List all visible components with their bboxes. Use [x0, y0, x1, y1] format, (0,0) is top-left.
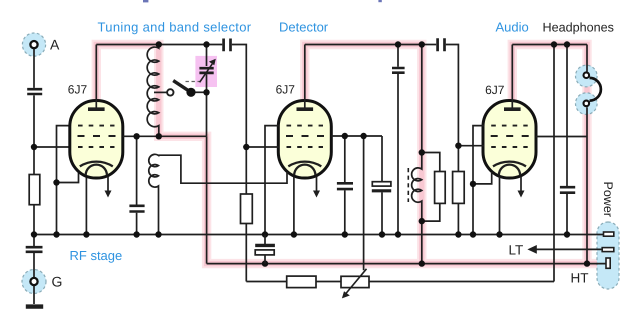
bus junction V2 bottom — [291, 231, 297, 237]
tube V3 grid 1 — [491, 125, 528, 127]
junction V1 anode-C3 — [133, 133, 139, 139]
variable capacitor highlight box — [195, 56, 217, 87]
wire grid node to tube V1 — [34, 146, 71, 148]
wire R1 to ground bus — [33, 205, 35, 235]
tube V1 grid-cap bar — [88, 107, 105, 111]
tube V1 internals — [78, 45, 116, 193]
wire G to earth — [33, 285, 35, 304]
coupling capacitor C6 plates — [438, 38, 445, 51]
headphone jack top — [584, 72, 590, 78]
band switch pivot — [186, 88, 195, 97]
bus junction C8 — [379, 231, 385, 237]
junction rail-L1 top — [156, 41, 162, 47]
terminal G pad — [22, 270, 46, 294]
wire coil tap to switch — [154, 91, 167, 93]
highlighted signal-path halo (pink) — [96, 45, 606, 264]
wire choke top to R4 — [422, 153, 440, 172]
wiper feed wire from V2 anode — [363, 136, 365, 270]
junction C4-HT line — [262, 260, 268, 266]
wire anode node to red corner — [159, 135, 207, 137]
top rail red right section — [512, 44, 587, 46]
bus junction antenna leg — [31, 231, 37, 237]
wire V2 grid3 — [246, 146, 278, 148]
wire C7 to bus — [344, 190, 346, 234]
tube V1 grid 3 — [78, 146, 115, 148]
wire V2 anode right — [331, 135, 382, 137]
bus junction L2 — [155, 231, 161, 237]
capacitor C7 plates — [337, 183, 353, 189]
junction choke-HT line — [419, 260, 425, 266]
tube V1 grid-cap lead — [95, 45, 97, 109]
top rail to coupling cap C6 — [422, 44, 436, 46]
band switch contact — [167, 89, 173, 95]
red drop wire — [206, 136, 208, 263]
wire C1a to grid node — [33, 95, 35, 148]
tube V3 envelope — [483, 101, 536, 179]
tube V3 grid-cap bar — [504, 107, 521, 111]
wire V3 cathode node — [473, 172, 492, 184]
electrolytic C4 case — [255, 250, 274, 255]
junction choke top — [419, 149, 425, 155]
svg-text:Audio: Audio — [496, 20, 529, 35]
wire node A down to resistor R1 — [33, 148, 35, 175]
tube V2 anode arrowhead — [313, 191, 320, 198]
junction V1 anode-L1 — [156, 133, 162, 139]
top rail red section left — [96, 44, 159, 46]
bus junction R5 — [455, 231, 461, 237]
wire R4 bottom to choke — [422, 203, 440, 221]
wire rail to variable capacitor VC1 — [206, 45, 208, 67]
resistor R5 — [453, 172, 465, 204]
tube V1 heater arc — [86, 165, 107, 176]
tube V3 internals — [491, 45, 529, 193]
volume line — [246, 281, 286, 283]
headphone jack pad bottom — [576, 93, 598, 115]
red drop to detector choke — [421, 45, 423, 153]
wire down to C7 — [344, 136, 346, 182]
capacitor C1a plates — [27, 89, 42, 94]
capacitor C8 case box — [372, 182, 391, 186]
wire C9 to bus — [566, 194, 568, 235]
tube V3 grid 3 — [491, 146, 528, 148]
terminal A pad — [22, 33, 45, 56]
red phones drop top — [586, 45, 588, 72]
wire V3 anode to phones line — [536, 136, 587, 138]
earth ground bar — [26, 304, 43, 308]
wire C5 to bus — [397, 74, 399, 235]
wire choke to red line — [421, 221, 423, 264]
tube V1 envelope — [70, 101, 123, 179]
red bottom feed line — [207, 263, 606, 265]
resistor R1 — [29, 175, 40, 205]
tube V1 anode arrowhead — [105, 191, 112, 198]
cropped text remnant left — [143, 0, 148, 2]
svg-text:Power: Power — [601, 182, 615, 217]
LT arrow shaft — [535, 248, 603, 250]
resistor R4 — [435, 172, 446, 204]
tube V2 anode arrow shaft — [316, 177, 318, 193]
coupling capacitor C2 plates — [224, 39, 231, 52]
tube V2 grid 1 — [287, 125, 324, 127]
wire rail down to C5 — [397, 45, 399, 67]
tube V3 heater arc — [499, 165, 520, 176]
riser to top rail — [553, 45, 555, 282]
tube V3 anode arrow shaft — [520, 177, 522, 193]
wire down to R2 — [245, 147, 247, 194]
LT arrowhead — [527, 245, 536, 254]
headphone jack pad top — [576, 65, 598, 87]
tube V2 internals — [286, 45, 324, 193]
wire bus to C1b — [33, 235, 35, 247]
wire V2 bottom to bus — [293, 177, 295, 235]
tube V2 grid 3 — [287, 146, 324, 148]
wire R3 to VR1 — [316, 281, 341, 283]
top rail red mid section — [305, 44, 422, 46]
capacitor C3 plates — [129, 206, 144, 212]
junction V1 grid3-antenna — [31, 144, 37, 150]
electrolytic C4 top plate — [255, 244, 275, 247]
wire V1 cathode to node — [57, 171, 79, 183]
junction V2 anode-wiper — [360, 133, 366, 139]
wire C3 to bus — [136, 213, 138, 235]
bus junction C3 — [133, 231, 139, 237]
tube V1 anode arrow shaft — [107, 177, 109, 193]
tube V2 grid-cap bar — [297, 107, 314, 111]
band switch pivot to node — [191, 91, 207, 93]
cropped text remnant right — [378, 0, 381, 2]
variable capacitor VC1 plates — [199, 68, 213, 73]
wire V3 grid1 left — [473, 126, 484, 235]
tube V3 anode arrowhead — [518, 191, 525, 198]
wire node down to bus — [56, 183, 58, 235]
junction phones-HT line — [584, 260, 590, 266]
svg-text:LT: LT — [509, 243, 524, 258]
wire V1 bottom to bus — [85, 177, 87, 235]
headphone jack bottom — [584, 101, 590, 107]
junction V1 cathode — [53, 179, 59, 185]
potentiometer VR1 wiper arrow — [346, 269, 367, 294]
red phones drop bottom — [586, 107, 588, 263]
svg-text:RF stage: RF stage — [70, 248, 123, 263]
junction V3 grid3 — [455, 143, 461, 149]
wire tube V1 grid1 left — [57, 126, 71, 183]
choke core dashes — [407, 168, 409, 202]
bus junction C9 — [564, 231, 570, 237]
choke L3 — [412, 153, 422, 222]
coil L2 secondary — [149, 154, 287, 235]
junction rail-volume riser — [551, 41, 557, 47]
top rail black to tuning cap — [159, 44, 223, 46]
power connector body — [597, 222, 619, 289]
tube V1 grid 2 — [78, 135, 116, 137]
svg-text:A: A — [50, 37, 60, 53]
tube V2 envelope — [278, 101, 331, 179]
tube V3 grid-cap lead — [511, 45, 513, 109]
wire V1 anode right — [123, 135, 159, 137]
wire corner down to C8 — [381, 136, 383, 182]
junction rail-C9 — [564, 41, 570, 47]
junction rail-choke — [419, 41, 425, 47]
junction rail-C5 — [395, 41, 401, 47]
svg-text:Headphones: Headphones — [543, 21, 614, 35]
tube V2 grid 2 — [286, 135, 324, 137]
resistor R2 — [241, 194, 253, 224]
band switch lever — [173, 81, 191, 93]
bus junction C5 — [395, 231, 401, 237]
wire C8 to bus — [381, 192, 383, 234]
headphone earpiece curve — [590, 78, 601, 101]
wire anode node down to C3 — [136, 136, 138, 204]
wire R2 through bus to volume line — [245, 224, 247, 282]
tube V2 grid-cap lead — [304, 45, 306, 109]
wire VR1 to riser — [369, 281, 554, 283]
svg-text:HT: HT — [571, 271, 589, 286]
power pin 3 HT — [606, 258, 610, 268]
junction choke bottom — [419, 218, 425, 224]
mechanical link dashes — [186, 81, 201, 83]
bus junction C4 — [262, 231, 268, 237]
tube V1 grid 1 — [78, 125, 115, 127]
svg-text:Tuning and band selector: Tuning and band selector — [98, 20, 252, 35]
wire V3 bottom to bus — [499, 177, 501, 235]
resistor R3 — [287, 276, 316, 288]
junction V2 grid3 — [243, 144, 249, 150]
capacitor C5 plates — [392, 68, 405, 73]
capacitor C8 solid plate — [372, 189, 391, 192]
wire V2 grid1 left — [265, 126, 279, 235]
electrolytic C4 leads — [264, 235, 266, 264]
svg-text:6J7: 6J7 — [276, 83, 296, 97]
svg-text:Detector: Detector — [279, 20, 329, 35]
wire switch node down to anode node — [206, 92, 208, 136]
power pin 1 — [604, 232, 614, 236]
tube V2 heater arc — [294, 165, 315, 176]
tube V2 cathode arc — [288, 162, 321, 167]
variable capacitor VC1 arrow — [200, 64, 213, 83]
wire C6 corner down to R5 — [446, 45, 459, 172]
wire V3 grid3 left — [458, 145, 484, 147]
terminal G solder tag — [30, 278, 37, 285]
power pin 2 LT — [602, 248, 614, 252]
wire R5 to bus — [457, 203, 459, 234]
wire C2 to corner down — [232, 45, 247, 148]
capacitor C9 plates — [560, 187, 575, 193]
tube V3 cathode arc — [493, 162, 526, 167]
svg-text:G: G — [52, 273, 63, 289]
bus junction V1 bottom — [83, 231, 89, 237]
junction V2 anode-C7 — [342, 133, 348, 139]
bus junction C7 — [342, 231, 348, 237]
potentiometer VR1 — [341, 276, 369, 287]
bus junction V3 cathode leg — [470, 231, 476, 237]
svg-text:6J7: 6J7 — [485, 83, 505, 97]
wire C1b to terminal G — [33, 253, 35, 278]
tube V3 grid 2 — [491, 135, 529, 137]
junction rail-VC1 — [203, 41, 209, 47]
svg-text:6J7: 6J7 — [68, 83, 88, 97]
wire VC1 to switch node — [206, 74, 208, 92]
bus junction V3 bottom — [496, 231, 502, 237]
ground bus — [34, 234, 604, 236]
wire A to C1a — [33, 48, 35, 88]
bus junction V1 grid leg — [53, 231, 59, 237]
coil L1 antenna — [147, 45, 159, 137]
junction V3 cathode — [470, 181, 476, 187]
junction switch-VC1 — [203, 89, 209, 95]
tube V1 cathode arc — [80, 162, 113, 167]
wire rail down to headphone cap C9 — [566, 45, 568, 187]
capacitor C1b plates — [26, 247, 43, 252]
terminal A solder tag — [30, 41, 37, 48]
